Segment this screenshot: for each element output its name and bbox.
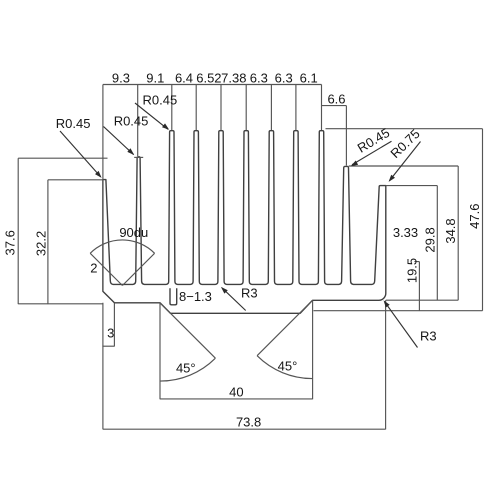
svg-text:R0.75: R0.75 (387, 126, 422, 161)
slot detail 8-1.3 under fin2 (170, 288, 177, 305)
svg-text:R0.45: R0.45 (355, 125, 392, 156)
svg-text:90du: 90du (119, 225, 148, 240)
dimension line 32.2 (47, 180, 49, 304)
heatsink profile outline (103, 131, 386, 314)
witness 73.8 right (385, 300, 387, 429)
dimension line 40 (160, 398, 313, 400)
svg-text:9.3: 9.3 (112, 71, 130, 86)
arrowhead R0.45 rotated (351, 161, 358, 167)
arrowhead R3 right (384, 300, 390, 307)
leader R3 corner (385, 302, 418, 347)
svg-text:34.8: 34.8 (443, 218, 458, 243)
dimension line 73.8 (103, 428, 386, 430)
witness 40 left / fan ray (159, 303, 161, 400)
witness tall fin top / 34.8 (349, 165, 458, 167)
fan 90du right ray (122, 253, 154, 285)
witness wall top 32.2 (48, 179, 103, 181)
dimension line 37.6 (17, 158, 19, 304)
dimension line 47.6 (482, 129, 484, 311)
extension line fin5 (245, 85, 247, 131)
arrowhead R0.75 (389, 175, 395, 182)
dimension 6.6 (322, 106, 347, 166)
svg-text:6.4: 6.4 (175, 71, 193, 86)
extension line fin1 (137, 85, 139, 157)
leader 19.5 (414, 262, 419, 311)
arrowhead R0.45 left (95, 171, 102, 178)
svg-text:9.1: 9.1 (146, 71, 164, 86)
top dimension line (103, 84, 322, 86)
witness chamfer 3 (113, 303, 115, 347)
svg-text:19.5: 19.5 (404, 258, 419, 283)
leader R0.45 rotated to tall fin (352, 141, 392, 165)
svg-text:R3: R3 (420, 329, 437, 344)
extension line fin6 (270, 85, 272, 131)
extension line fin7 (295, 85, 297, 131)
leader R0.75 to wall corner (390, 142, 421, 181)
dimension line 3 (102, 345, 114, 347)
svg-text:40: 40 (229, 385, 243, 400)
bottom witness 47.6 / 19.5 (314, 310, 483, 312)
arrowhead R0.45 top (162, 123, 169, 129)
svg-text:6.3: 6.3 (250, 71, 268, 86)
arrowhead R0.45 mid (127, 148, 134, 155)
svg-text:6.3: 6.3 (275, 71, 293, 86)
bottom witness 29.8 34.8 (386, 299, 458, 301)
svg-text:R0.45: R0.45 (143, 93, 178, 108)
extension line fin4 (220, 85, 222, 131)
svg-text:29.8: 29.8 (422, 227, 437, 252)
fan 45 left ray (160, 303, 215, 358)
svg-text:73.8: 73.8 (236, 415, 261, 430)
svg-text:8−1.3: 8−1.3 (179, 289, 212, 304)
svg-text:47.6: 47.6 (467, 204, 482, 229)
svg-text:R0.45: R0.45 (114, 114, 149, 129)
svg-text:3.33: 3.33 (393, 225, 418, 240)
witness 40 right / fan ray (312, 300, 314, 399)
extension line left wall (102, 85, 104, 180)
leader R0.45 left to wall corner (60, 131, 101, 177)
fan 45 left arc (160, 358, 215, 381)
leader R0.45 top to fin2 tip (135, 103, 168, 129)
fan 90du arc (90, 240, 154, 253)
tick at fin1 tip (134, 156, 143, 158)
fan 45 right arc (257, 356, 312, 379)
extension line fin2 (171, 85, 173, 131)
leader R3 fin root (222, 288, 246, 310)
extension line fin8 (321, 85, 323, 131)
extension line fin3 (195, 85, 197, 131)
svg-text:7.38: 7.38 (221, 71, 246, 86)
fan 90du left ray (90, 253, 122, 285)
witness fin1 tip level 37.6 (18, 157, 107, 159)
svg-text:37.6: 37.6 (3, 230, 18, 255)
bottom witness left dims (18, 303, 103, 305)
svg-text:2: 2 (90, 260, 97, 275)
dimension line 34.8 (457, 166, 459, 300)
svg-text:R0.45: R0.45 (56, 116, 91, 131)
fan 45 right ray (257, 300, 312, 355)
leader R0.45 mid to fin1 tip (104, 127, 134, 155)
svg-text:6.1: 6.1 (300, 71, 318, 86)
witness wall top / 29.8 (386, 185, 438, 187)
svg-text:3: 3 (107, 326, 114, 341)
svg-text:45°: 45° (278, 359, 298, 374)
svg-text:45°: 45° (176, 360, 196, 375)
svg-text:6.6: 6.6 (327, 91, 345, 106)
svg-text:R3: R3 (241, 286, 258, 301)
svg-text:32.2: 32.2 (34, 231, 49, 256)
dimension line 29.8 (436, 186, 438, 301)
arrowhead R3 mid (221, 287, 228, 294)
witness line fin tips right / 47.6 top (326, 128, 483, 130)
svg-text:6.52: 6.52 (196, 71, 221, 86)
witness 73.8 left (102, 180, 104, 430)
